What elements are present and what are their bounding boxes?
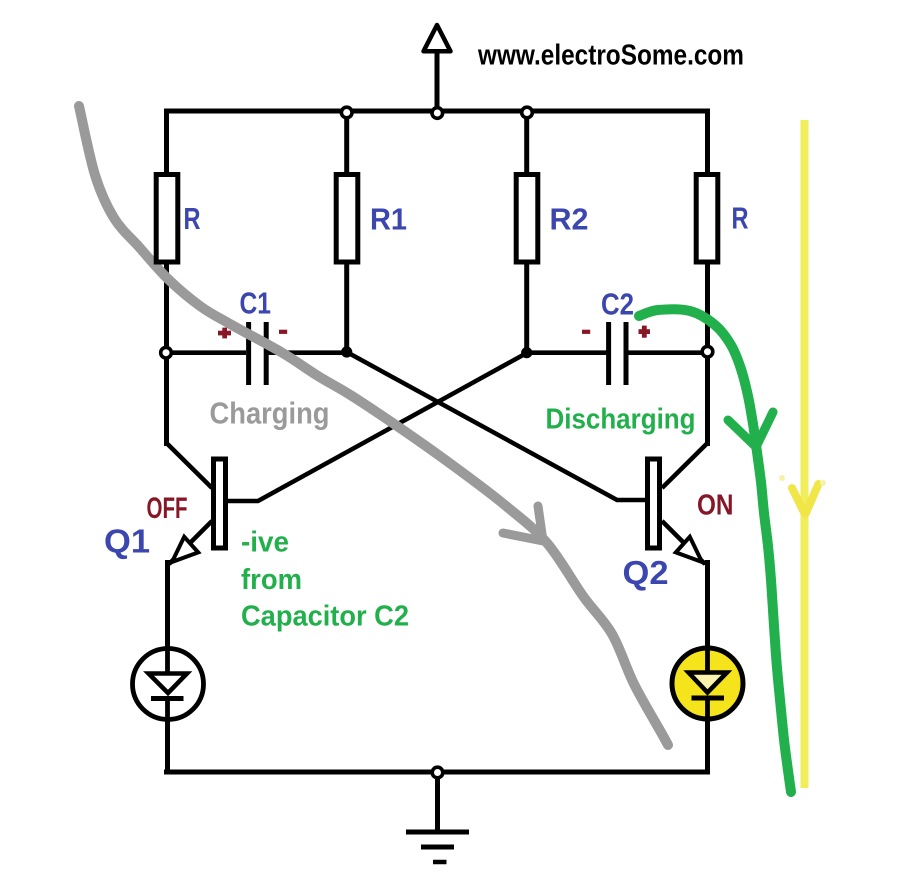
wire left column [164,109,169,447]
transistor Q2 base bar [648,459,660,548]
svg-text:C2: C2 [601,287,634,322]
yellow arrowhead speck right [820,480,826,486]
LED D2 internal wires [705,648,710,719]
resistor R (over gray curve) [156,175,178,263]
svg-text:OFF: OFF [147,492,188,525]
wire Q1 emitter to LED1 [165,560,170,648]
LED D1 internal wires [165,648,170,720]
transistor Q1 emitter arrow [172,537,198,562]
wire C1 right [266,350,347,355]
svg-text:from: from [241,564,302,596]
yellow arrowhead [792,484,819,514]
wire LED2 to bottom rail [705,718,710,772]
LED D2 cathode bar [692,696,725,701]
yellow arrowhead speck left [779,475,785,481]
LED D1 cathode bar [151,696,184,701]
transistor Q1 base bar [214,459,226,548]
wire R1 column [344,111,349,352]
wire C2 left [527,350,607,355]
label C2 plus [639,326,651,338]
node dot C1 right [341,346,352,357]
wire C2 right [626,350,708,355]
wire Q2 emitter to LED2 [705,560,710,648]
LED D1 triangle [149,674,188,694]
svg-text:R1: R1 [370,202,407,237]
svg-text:R: R [732,201,749,236]
wire Q2 base cross from C1 node [347,352,646,500]
svg-text:R2: R2 [550,202,589,237]
wire top rail [164,109,710,114]
resistor R right [696,175,718,263]
transistor Q2 emitter arrow [676,537,702,562]
resistor R2 [516,175,538,263]
capacitor C1 [249,322,267,385]
yellow current line [801,120,809,788]
svg-text:R: R [184,201,201,236]
wire Q1 collector diagonal [167,443,213,488]
green discharging curve [639,309,791,792]
svg-text:-ive: -ive [241,527,289,559]
wire Q1 emitter diagonal [169,521,212,564]
gray arrowhead [503,506,543,541]
resistor R1 [336,175,358,263]
wire Q2 collector diagonal [662,443,708,488]
wire C1 left [167,350,247,355]
label C1 minus [279,330,287,334]
svg-text:Charging: Charging [210,396,330,431]
wire R2 column [524,111,529,353]
label C1 plus [218,328,231,339]
svg-text:C1: C1 [240,286,272,321]
node ring right C2 [702,346,713,357]
green arrowhead [728,412,773,447]
wire bottom rail [164,770,710,775]
LED D2 triangle [689,673,728,693]
svg-text:ON: ON [697,490,734,522]
svg-text:www.electroSome.com: www.electroSome.com [477,40,744,72]
LED D2 circle [672,648,743,719]
node ring top R2 [522,107,533,118]
svg-text:Q2: Q2 [623,554,669,591]
wire LED1 to bottom rail [165,718,170,772]
label C2 minus [582,330,590,334]
wire right column [705,109,710,447]
ground stem wire [435,772,440,832]
svg-text:Q1: Q1 [104,523,150,560]
svg-text:Discharging: Discharging [546,404,696,436]
node ring ground [432,767,443,778]
gray charging curve [79,106,668,745]
node ring top R1 [341,107,352,118]
wire Q1 base cross from C2 node [228,353,527,501]
node ring left C1 [161,347,172,358]
capacitor C2 [609,322,626,385]
node dot C2 left [521,347,532,358]
supply arrow [424,25,451,51]
LED D1 circle [133,649,204,720]
node ring supply [432,108,443,119]
supply stem wire [435,52,440,113]
wire Q2 emitter diagonal [662,521,705,564]
ground [406,832,469,862]
svg-text:Capacitor C2: Capacitor C2 [241,601,409,633]
